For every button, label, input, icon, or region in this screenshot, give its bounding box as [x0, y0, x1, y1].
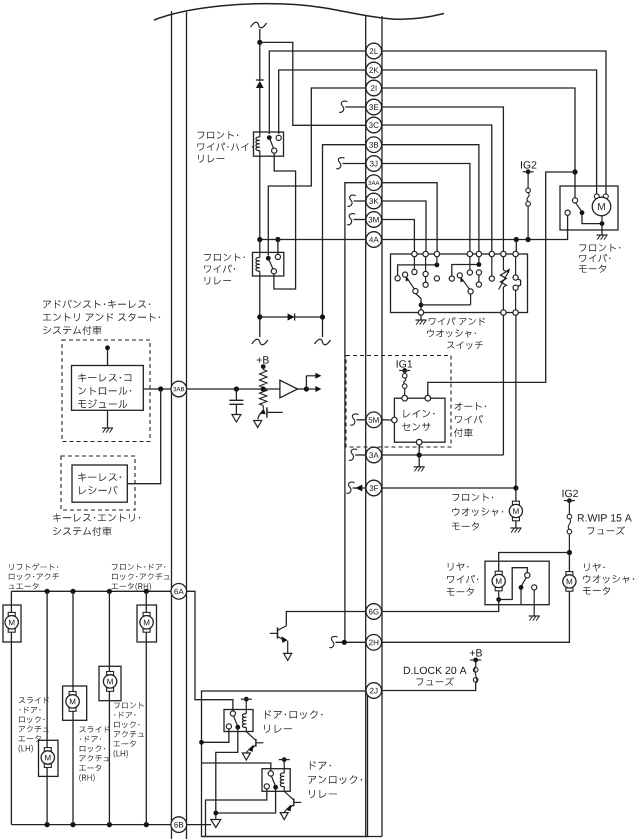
middle bus line 1 [365, 15, 367, 837]
washer motor ground [515, 521, 517, 528]
lock relay arm [234, 716, 238, 725]
switch terminal top x425.6 [423, 251, 428, 256]
IG2 label top [521, 161, 536, 168]
module ground [107, 410, 109, 428]
label slide RH actuator [79, 726, 109, 733]
keyless control module dashed box [62, 340, 150, 442]
squiggle 5M [350, 414, 358, 425]
break squiggle left [252, 339, 268, 345]
squiggle 3E [339, 101, 347, 112]
connector 4A [366, 232, 382, 248]
high relay contact NC [276, 135, 281, 140]
lock relay contact bottom [226, 724, 231, 729]
motor M4 rear wiper [495, 571, 502, 574]
transistor Q4 [293, 799, 295, 807]
wire rear washer to 2H [382, 591, 570, 642]
wire squiggle to junction [259, 29, 261, 42]
switch terminal top x515.6 [513, 251, 518, 256]
motor M8 front LH [107, 672, 114, 675]
wire lock NC to box edge [202, 729, 229, 742]
motor M5 liftgate [8, 612, 15, 615]
squiggle 3A [349, 449, 357, 460]
squiggle 3M [347, 214, 355, 225]
wire rear wiper inner [499, 568, 528, 600]
+B terminal dlock [473, 658, 478, 663]
rear wiper switch common [519, 585, 524, 590]
connector 6B [171, 817, 187, 833]
label advanced keyless system [43, 300, 150, 309]
label keyless entry system [53, 513, 140, 521]
wire unlock NO from box edge [202, 763, 271, 771]
IG2 lower terminal [567, 498, 572, 503]
label keyless receiver [78, 473, 121, 482]
junction dot 3AA-2H [342, 640, 347, 645]
connector 3C [366, 117, 382, 133]
sensor terminal top right [425, 395, 431, 401]
wire slide RH [72, 591, 74, 691]
wire 4A left segment [260, 239, 366, 241]
wire 4A right [382, 215, 568, 239]
resistor R1 [262, 367, 264, 370]
wiper relay arm [268, 258, 273, 269]
capacitor C1 [234, 386, 239, 391]
connector 3E [366, 99, 382, 115]
junction dot 6B x47.1 [45, 822, 50, 827]
rear wiper switch right contact [532, 585, 537, 590]
arrow out lower [306, 388, 316, 390]
wire 3J right [382, 164, 470, 252]
right switch arm [457, 273, 462, 278]
module antenna stub [107, 348, 109, 366]
+B dot [261, 364, 266, 369]
junction dot diode wire right [320, 314, 325, 319]
label door lock relay [265, 710, 322, 719]
wire junction to 3C loop [260, 42, 366, 125]
wiper relay coil [256, 257, 260, 271]
connector 2L [366, 43, 382, 59]
wire 3AA left branch [345, 183, 366, 643]
switch terminal top x414.4 [412, 251, 417, 256]
squiggle 3J [336, 158, 344, 169]
wire 3M right [382, 220, 415, 252]
connector 6A [171, 584, 187, 600]
arrow out upper [305, 376, 307, 389]
unlock relay coil supply stub [283, 760, 285, 769]
rear wiper switch pivot [525, 573, 530, 578]
transistor Q2 [277, 627, 279, 638]
junction dot 6B x109.4 [107, 822, 112, 827]
lock relay coil [242, 714, 246, 728]
wire 2I left branch [268, 88, 366, 256]
label liftgate actuator [9, 563, 58, 570]
transistor ground triangle [254, 421, 262, 428]
left arm output [413, 289, 418, 294]
fuse F1 [527, 172, 529, 188]
right group bus bar [452, 265, 479, 277]
harness break wavy line [154, 4, 444, 20]
sensor ground [418, 455, 420, 467]
lock relay contact top [230, 711, 235, 716]
squiggle 2H [329, 636, 337, 647]
junction dot washer motor [513, 485, 518, 490]
motor M3 rear washer [568, 553, 570, 572]
junction dot 6A x47.1 [45, 589, 50, 594]
junction dot rwip [567, 550, 572, 555]
switch output wire right [421, 304, 471, 306]
contact under 3C [491, 257, 493, 276]
switch terminal top x436.9 [434, 251, 439, 256]
wiper motor switch left contact [565, 210, 570, 215]
switch terminal bottom x421 [418, 310, 423, 315]
left group contact 3a [425, 257, 427, 272]
middle bus line 2 [381, 16, 383, 837]
keyless receiver dashed box [61, 456, 135, 510]
wire 3A right [382, 454, 504, 456]
right group contact 2 [469, 257, 471, 270]
wire front RH [145, 591, 147, 612]
left group contact 3b [425, 277, 427, 282]
wire 3K right [382, 201, 426, 252]
wire switch common to motor [582, 215, 602, 224]
IG2 label lower [563, 490, 578, 497]
switch terminal top x503.4 [501, 251, 506, 256]
label rear washer motor [584, 563, 605, 571]
sensor terminal bottom [416, 439, 422, 445]
wire 2K right [382, 70, 597, 194]
connector 3F [366, 480, 382, 496]
connector 3A [366, 447, 382, 463]
left group contact 4 [434, 276, 439, 281]
wire washer switch down to 3F node [515, 315, 517, 488]
rear wiper switch arm [522, 578, 527, 586]
wiper motor switch top contact [572, 198, 577, 203]
label keyless control module [78, 373, 131, 382]
buffer amp U1 [280, 380, 298, 398]
front door RH actuator box [137, 605, 157, 642]
label front washer motor [452, 493, 493, 501]
right arm output [468, 289, 473, 294]
junction dot 6A x109.4 [107, 589, 112, 594]
wire unlock common down [216, 787, 276, 813]
variable resistor washer speed [502, 257, 504, 270]
transistor Q1 [266, 407, 268, 417]
diode D1 up [256, 81, 264, 88]
connector 3M [366, 212, 382, 228]
front wiper relay box [253, 252, 284, 276]
label auto wiper [455, 402, 487, 410]
auto wiper dashed box [346, 356, 451, 448]
wire right contact ground [533, 590, 535, 616]
connector 2H [366, 635, 382, 651]
junction dot rear wiper [496, 597, 501, 602]
left bus line 1 [171, 11, 173, 839]
switch terminal top x491.8 [489, 251, 494, 256]
front wiper motor box [560, 186, 618, 230]
fuse F3 R.WIP [568, 501, 570, 515]
wire unlock NC down [206, 789, 267, 837]
switch terminal bottom x503.4 [501, 310, 506, 315]
left group bus bar [398, 265, 437, 276]
connector 2J [366, 683, 382, 699]
wire 2I to rain sensor [428, 172, 575, 395]
left group contact 2 [413, 257, 415, 270]
wire 3B left branch [323, 145, 366, 337]
wiper motor switch common [580, 210, 585, 215]
keyless control module box [72, 366, 144, 411]
junction dot 2I branch [572, 169, 577, 174]
junction dot diode wire left [257, 314, 262, 319]
wire 3AA right [382, 183, 437, 252]
connector 3AB wire right [187, 388, 280, 390]
unlock relay coil [280, 773, 284, 787]
wiper relay contact NC [275, 254, 280, 259]
sensor terminal top left [402, 395, 408, 401]
door unlock relay box [262, 769, 290, 792]
wire module to 3AB [143, 388, 171, 390]
wiper washer switch box [391, 254, 528, 313]
fuse F2 [404, 371, 406, 374]
wire lock common down [216, 727, 238, 813]
front wiper high relay box [254, 132, 284, 156]
liftgate actuator box [3, 605, 21, 642]
right group contact 3a [476, 270, 481, 275]
lock relay coil supply stub [245, 699, 247, 709]
transistor Q3 ground [242, 753, 250, 760]
junction dot 6A x146.3 [144, 589, 149, 594]
wiper motor switch arm [576, 203, 582, 211]
wire wiper relay coil down [259, 276, 261, 337]
wiper relay contact common [266, 256, 271, 261]
wire coil chain down [259, 156, 261, 252]
wire 2K left to high relay [279, 70, 366, 134]
switch terminal bottom x515.6 [513, 310, 518, 315]
resistor R2 [260, 389, 267, 406]
transistor Q3 [255, 739, 257, 747]
label R.WIP fuse [578, 514, 632, 521]
+B label mid [257, 356, 269, 363]
transistor Q2 ground [284, 653, 292, 660]
wire front LH [108, 591, 110, 671]
wire 5M to sensor [382, 419, 392, 421]
junction dot receiver branch [158, 386, 163, 391]
connector 3J [366, 156, 382, 172]
6B ground triangle [215, 813, 217, 820]
wire 6A to lock relay [187, 591, 233, 711]
high relay contact common [267, 135, 272, 140]
sensor terminal left [392, 417, 398, 423]
motor M6 front door RH [143, 612, 150, 615]
connector 5M [366, 412, 382, 428]
high relay arm [269, 138, 273, 149]
connector 2K [366, 62, 382, 78]
lock relay common [235, 725, 240, 730]
keyless receiver box [72, 465, 127, 502]
label door unlock relay [310, 761, 331, 770]
left switch arm [403, 272, 408, 277]
diode D2 right [260, 316, 323, 318]
wire 6B right [187, 824, 211, 826]
left bus line 2 [186, 12, 188, 839]
wire high relay NO output [274, 153, 296, 289]
wire 2L right [382, 51, 606, 194]
capacitor ground triangle [232, 415, 241, 423]
label front wiper high relay [197, 131, 238, 139]
label wiper and washer switch [429, 317, 485, 325]
junction dot 6B x146.3 [144, 822, 149, 827]
label front LH actuator [114, 702, 144, 709]
motor ground wire [601, 216, 603, 224]
junction dot 6A x73 [70, 589, 75, 594]
wire slide LH [46, 591, 48, 747]
slide door LH actuator box [39, 740, 59, 776]
wire 3F right [382, 487, 516, 489]
connector 3AA [366, 175, 382, 191]
washer switch contact pair [515, 257, 517, 275]
IG2 terminal [526, 169, 531, 174]
motor M9 slide LH [44, 748, 51, 751]
rear wiper motor box [485, 561, 549, 605]
door relay enclosure box [202, 691, 368, 837]
motor M2 front washer [515, 488, 517, 501]
label slide LH actuator [19, 697, 49, 704]
wire intermittent down to 3A wire [502, 315, 504, 455]
wire sensor bottom [418, 445, 420, 455]
wire 6G left to transistor [286, 612, 366, 626]
left group contact 1 [395, 276, 400, 281]
IG1 terminal [402, 368, 407, 373]
fuse F4 D.LOCK [473, 678, 478, 683]
wire continuation symbol top [251, 22, 267, 28]
wire 2I right [382, 88, 575, 198]
unlock relay arm [271, 776, 275, 785]
wire 2J to fuse [382, 682, 476, 690]
label rain sensor [404, 410, 435, 418]
junction dot 4A-IG2 [526, 237, 531, 242]
connector 2I [366, 80, 382, 96]
wire liftgate [10, 591, 12, 612]
wire switch feed [515, 240, 517, 252]
junction dot sensor ground [417, 452, 422, 457]
break squiggle right [315, 339, 331, 345]
bus bottom edge [202, 836, 383, 838]
connector 3B [366, 137, 382, 153]
transistor Q4 ground [280, 813, 288, 820]
wire to wiper relay NC [277, 240, 279, 255]
junction dot on 4A wire left [257, 237, 262, 242]
unlock relay common [273, 785, 278, 790]
slide door RH actuator box [63, 686, 87, 720]
squiggle 3F with arrow [346, 482, 354, 493]
wire 3B right [382, 145, 479, 252]
unlock relay contact bottom [264, 784, 269, 789]
label front door RH actuator [112, 564, 165, 571]
high relay coil [256, 137, 260, 151]
junction dot A [257, 40, 262, 45]
door lock relay box [224, 710, 253, 732]
IG1 label [397, 360, 412, 367]
label front wiper motor [579, 244, 620, 252]
label rear wiper motor [448, 563, 469, 571]
wire 6A left [11, 590, 171, 592]
label D.LOCK fuse [404, 667, 467, 674]
wire 3E right [382, 107, 504, 252]
wire fuse to rear wiper motor [499, 553, 570, 572]
connector 3K [366, 193, 382, 209]
label front wiper relay [204, 253, 245, 261]
switch terminal top x469.9 [467, 251, 472, 256]
junction dot 6B x73 [70, 822, 75, 827]
wire receiver branch [127, 389, 160, 484]
wire diode vertical [259, 42, 261, 81]
connector 6G [366, 604, 382, 620]
switch terminal top x478.9 [476, 251, 481, 256]
wire 2L left to high relay [269, 51, 366, 134]
wire switch common down [520, 587, 522, 604]
wire 6B left [11, 824, 171, 826]
switch ground wire [420, 315, 422, 320]
right group contact 1 [449, 276, 454, 281]
motor M7 slide RH [69, 692, 76, 695]
wire amp out [298, 388, 307, 390]
high relay contact NO [272, 148, 277, 153]
right group contact 3b [478, 275, 480, 282]
rain sensor box [394, 398, 445, 442]
junction dot motor ground [600, 221, 605, 226]
wiper relay contact NO [271, 269, 276, 274]
squiggle 3K [348, 195, 356, 206]
junction dot 4A-switch [514, 237, 519, 242]
unlock relay contact top [268, 771, 273, 776]
wire 3C right [382, 125, 492, 252]
wire 6G [382, 600, 499, 612]
front door LH actuator box [99, 666, 121, 700]
connector 3AB [171, 381, 187, 397]
motor M1 front wiper [594, 194, 599, 199]
